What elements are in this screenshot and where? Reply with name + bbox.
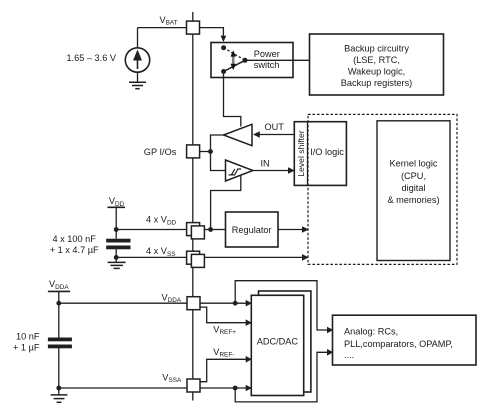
pin VDDA (187, 297, 200, 310)
capacitor C1 (106, 239, 130, 250)
svg-text:PLL,comparators, OPAMP,: PLL,comparators, OPAMP, (344, 339, 453, 349)
svg-text:I/O logic: I/O logic (310, 147, 344, 157)
wire power switch to OUT buffer supply (224, 74, 241, 127)
arrow into level shifter (288, 167, 295, 174)
svg-text:Level shifter: Level shifter (296, 130, 306, 176)
svg-text:IN: IN (261, 159, 270, 169)
pin VBAT (187, 21, 200, 34)
wire VBAT pin to power switch (200, 28, 224, 36)
node regulator input (208, 227, 213, 232)
arrow VSS into kernel domain (302, 254, 309, 261)
arrow VSSA into analog (327, 349, 333, 356)
svg-text:VDD: VDD (109, 196, 125, 208)
svg-text:Kernel logic: Kernel logic (389, 159, 437, 169)
arrow regulator into kernel domain (302, 226, 309, 233)
svg-text:4 x VDD: 4 x VDD (146, 215, 177, 227)
wire VDD to IN buffer supply (211, 175, 241, 229)
pin 4xVDD front (191, 226, 204, 239)
label kernel logic (387, 159, 439, 206)
svg-text:Backup registers): Backup registers) (341, 78, 413, 88)
svg-text:Wakeup logic,: Wakeup logic, (348, 67, 405, 77)
svg-text:(CPU,: (CPU, (401, 171, 426, 181)
wire cap2 bottom (58, 348, 60, 395)
level shifter divider (307, 122, 309, 186)
svg-text:VREF-: VREF- (213, 347, 234, 359)
svg-text:switch: switch (254, 60, 280, 70)
wire VDDA rail (59, 302, 187, 304)
ground G2 (108, 262, 126, 268)
wire VSSA rail (59, 387, 187, 389)
wire IN buffer to level shifter (253, 170, 289, 172)
buffer IN schmitt (226, 160, 254, 181)
svg-text:Backup circuitry: Backup circuitry (344, 44, 409, 54)
node VDDA branch (233, 301, 238, 306)
wire level shifter to OUT buffer (259, 134, 294, 136)
svg-text:1.65 – 3.6 V: 1.65 – 3.6 V (66, 53, 116, 63)
node VSSA (56, 386, 61, 391)
svg-text:VSSA: VSSA (162, 372, 182, 384)
pin 4xVDD back (187, 223, 200, 236)
svg-text:Power: Power (254, 49, 280, 59)
VDD supply bar (108, 206, 126, 208)
analog box (333, 315, 477, 365)
label backup circuitry (341, 44, 413, 89)
svg-text:4 x VSS: 4 x VSS (146, 246, 175, 258)
wire VDD rail (116, 229, 210, 231)
svg-text:VDDA: VDDA (162, 292, 182, 304)
wire VDDA pin to ADC (200, 302, 247, 304)
arrow VREF- into ADC (246, 356, 252, 363)
wire GPIO pin to node (200, 151, 211, 153)
ground G3 (51, 395, 68, 402)
svg-text:Analog: RCs,: Analog: RCs, (344, 327, 398, 337)
svg-text:digital: digital (401, 183, 425, 193)
wire VDDA bar down (58, 291, 60, 337)
arrow into power switch (221, 36, 227, 42)
node VSSA branch (233, 386, 238, 391)
node VDD cap top (114, 227, 119, 232)
arrow into OUT buffer (253, 131, 260, 138)
wire main pin rail (192, 12, 194, 401)
wire regulator to kernel (278, 229, 303, 231)
level shifter / IO logic box (294, 122, 346, 186)
svg-text:OUT: OUT (265, 122, 285, 132)
svg-text:ADC/DAC: ADC/DAC (257, 336, 299, 346)
capacitor C2 (48, 338, 72, 349)
wire VREF+ (200, 307, 247, 323)
wire VREF- (200, 359, 247, 381)
battery source V1 (125, 48, 149, 72)
arrow VDDA into analog (327, 327, 333, 334)
wire power switch to backup box (245, 59, 310, 61)
svg-text:& memories): & memories) (387, 195, 439, 205)
svg-text:VREF+: VREF+ (213, 324, 236, 336)
VDDA supply bar (48, 290, 70, 292)
ADC/DAC box front (251, 295, 303, 395)
arrow VREF+ into ADC (246, 319, 252, 326)
svg-text:VBAT: VBAT (160, 15, 178, 27)
buffer OUT (224, 124, 253, 145)
ADC/DAC box back (259, 291, 311, 392)
node GPIO junction (208, 149, 213, 154)
pin 4xVSS back (187, 251, 200, 264)
wire VDD bar down (115, 207, 117, 238)
svg-text:....: .... (344, 350, 354, 360)
wire VSS rail (116, 256, 303, 258)
wire VSSA underpass to analog (235, 352, 327, 402)
svg-text:+ 1 x 4.7 µF: + 1 x 4.7 µF (50, 245, 99, 255)
wire VDDA overpass to analog (235, 281, 327, 330)
switch contact top (221, 45, 226, 50)
kernel logic box (377, 121, 450, 261)
arrow VDDA into ADC (246, 300, 252, 307)
backup circuitry box (310, 34, 444, 95)
switch pole (243, 58, 248, 63)
pin 4xVSS front (191, 254, 204, 267)
wire cap bottom (115, 249, 117, 262)
svg-text:10 nF: 10 nF (16, 332, 40, 342)
svg-text:Regulator: Regulator (232, 225, 272, 235)
switch contact bottom (221, 69, 226, 74)
svg-text:GP I/Os: GP I/Os (144, 147, 177, 157)
dashed kernel domain box (308, 114, 457, 264)
svg-text:+ 1 µF: + 1 µF (13, 342, 40, 352)
svg-text:4 x 100 nF: 4 x 100 nF (52, 234, 96, 244)
wire source top lead (137, 28, 139, 48)
wire OUT apex to GPIO node (211, 135, 226, 171)
pin VSSA (187, 379, 200, 392)
node VSS cap bottom (114, 255, 119, 260)
schmitt symbol (229, 169, 242, 175)
switch blade solid (224, 60, 245, 71)
wire node to regulator (211, 229, 226, 231)
switch toggle arrow (231, 50, 236, 70)
regulator box (226, 212, 279, 247)
svg-text:VDDA: VDDA (49, 279, 69, 291)
wire VSSA pin to ADC (200, 387, 247, 389)
pin GP I/Os (187, 145, 200, 158)
ground G1 (129, 82, 146, 88)
wire VBAT pin to source (138, 27, 187, 29)
arrow VSSA into ADC (246, 385, 252, 392)
power switch box (211, 43, 293, 78)
switch blade dashed (224, 48, 245, 61)
wire source bottom lead (137, 72, 139, 82)
node VDDA (56, 301, 61, 306)
svg-text:(LSE, RTC,: (LSE, RTC, (353, 55, 400, 65)
label analog (344, 327, 453, 360)
